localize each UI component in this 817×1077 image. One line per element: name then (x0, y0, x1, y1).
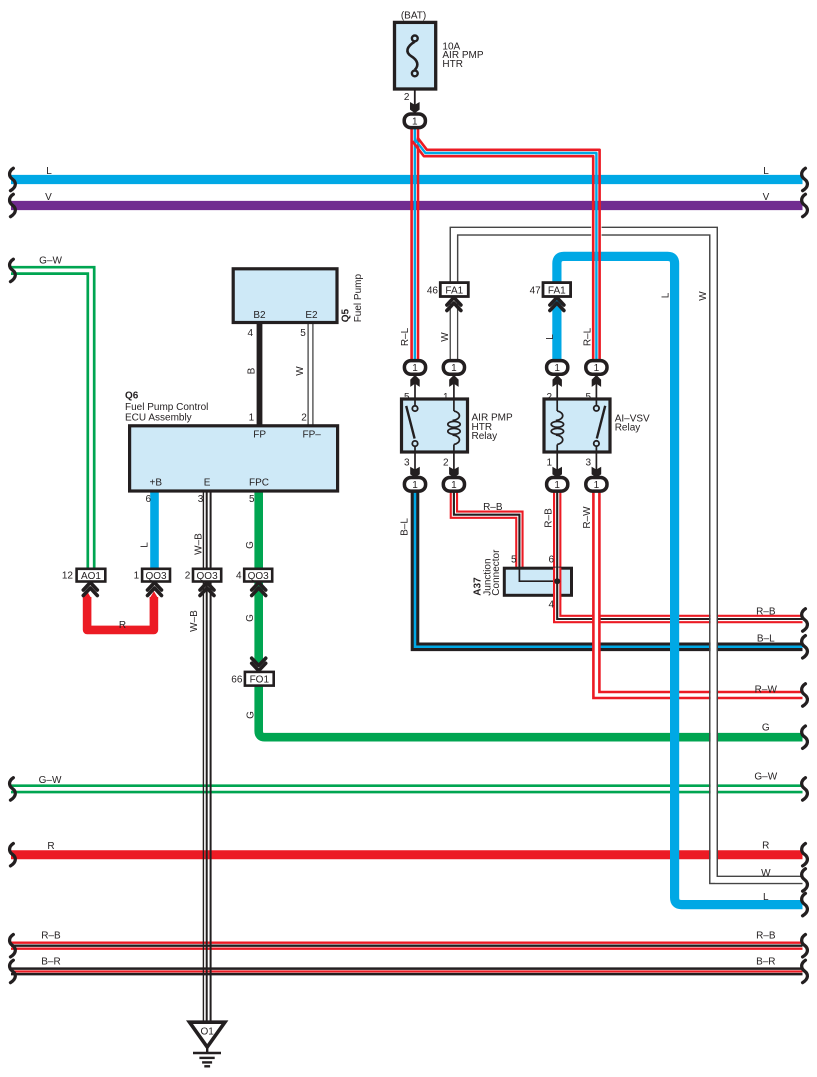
wire B-L from relay pin 3 to right edge (415, 491, 803, 647)
connector 12 AO1 (77, 569, 106, 582)
svg-text:+B: +B (150, 477, 163, 488)
connector 46 FA1 (440, 283, 468, 297)
svg-text:W: W (440, 332, 451, 342)
svg-text:G: G (245, 541, 256, 549)
svg-text:R–B: R–B (756, 607, 776, 618)
svg-text:R–B: R–B (483, 502, 503, 513)
svg-text:G–W: G–W (39, 775, 62, 786)
chevron FA1 47 (550, 298, 564, 311)
connector 4 QO3 (244, 569, 272, 582)
wire R-B from relay1 pin 2 to junction A37 pin 5 (454, 491, 520, 570)
svg-text:5: 5 (511, 555, 517, 566)
edge connector symbols left (10, 168, 16, 982)
svg-text:66: 66 (231, 674, 243, 685)
svg-text:FPC: FPC (249, 477, 269, 488)
wire R-B bus bottom (11, 942, 803, 950)
wire L bus horizontal top (11, 175, 803, 184)
svg-text:V: V (763, 192, 770, 203)
svg-text:4: 4 (247, 328, 253, 339)
relay U3 AI-VSV Relay box (544, 399, 610, 452)
svg-text:2: 2 (185, 571, 191, 582)
svg-text:4: 4 (548, 600, 554, 611)
svg-text:Q6: Q6 (125, 390, 139, 401)
relay1 pin stub wires (415, 372, 454, 480)
svg-text:2: 2 (404, 92, 410, 103)
wire W from Q5 E2 to Q6 FP- (308, 322, 313, 426)
arrow down at fuse output (410, 102, 420, 113)
svg-text:3: 3 (198, 494, 204, 505)
svg-text:W–B: W–B (193, 533, 204, 555)
svg-text:FP: FP (253, 430, 266, 441)
svg-text:R–W: R–W (582, 506, 593, 529)
svg-text:L: L (140, 542, 151, 548)
svg-text:FA1: FA1 (548, 286, 566, 297)
svg-text:Relay: Relay (615, 423, 641, 434)
svg-text:1: 1 (451, 363, 457, 374)
svg-text:1: 1 (546, 457, 552, 468)
arrow from relay1 pin 3 (410, 467, 420, 478)
wire G-W bus horizontal lower (11, 786, 803, 792)
svg-text:QO3: QO3 (248, 571, 270, 582)
connector 47 FA1 (543, 283, 571, 297)
svg-text:G–W: G–W (39, 256, 62, 267)
svg-text:B–L: B–L (757, 634, 775, 645)
svg-text:Q5: Q5 (341, 309, 352, 323)
svg-text:L: L (545, 334, 556, 340)
svg-text:QO3: QO3 (197, 571, 219, 582)
svg-text:R–B: R–B (544, 508, 555, 528)
svg-text:1: 1 (412, 480, 418, 491)
svg-text:L: L (46, 166, 52, 177)
arrow into relay2 pin 2 node (553, 375, 562, 387)
svg-text:V: V (45, 192, 52, 203)
svg-text:W: W (295, 366, 306, 376)
arrow into relay2 pin 5 node (592, 375, 601, 387)
svg-text:FP–: FP– (303, 430, 322, 441)
svg-text:B–L: B–L (400, 518, 411, 536)
relay U2 AIR PMP HTR Relay box (402, 399, 468, 452)
svg-text:B2: B2 (253, 310, 266, 321)
svg-text:O1: O1 (201, 1027, 215, 1038)
svg-text:1: 1 (594, 363, 600, 374)
arrow into relay1 pin 5 node (410, 375, 419, 387)
wire R-L from fuse to relay1 pin5 and branch to relay2 pin5 (412, 124, 602, 368)
svg-text:1: 1 (249, 412, 255, 423)
svg-text:G: G (762, 723, 770, 734)
svg-text:L: L (763, 892, 769, 903)
node 1 oval below fuse (404, 114, 425, 128)
svg-text:FO1: FO1 (250, 675, 270, 686)
svg-text:W: W (698, 291, 709, 301)
svg-text:4: 4 (236, 571, 242, 582)
fuse 10A AIR PMP HTR (BAT) box (395, 22, 436, 89)
svg-text:QO3: QO3 (145, 571, 167, 582)
wire L thick loop from connector FA1 47 around right side to right edge (557, 256, 803, 904)
connector 66 FO1 (245, 672, 274, 686)
chevron QO3 4 (252, 583, 266, 596)
svg-text:B–R: B–R (41, 957, 60, 968)
connector 2 QO3 (193, 569, 221, 582)
svg-text:R–W: R–W (755, 685, 778, 696)
wire B-R bus bottom (11, 967, 803, 975)
svg-text:L: L (763, 166, 769, 177)
svg-text:E: E (204, 477, 211, 488)
relay2 pin stub wires (557, 372, 596, 480)
connector 1 QO3 (142, 569, 170, 582)
svg-text:1: 1 (554, 480, 560, 491)
arrow from relay2 pin 3 (592, 467, 602, 478)
arrow into relay1 pin 1 node (449, 375, 458, 387)
svg-text:R: R (119, 620, 126, 631)
svg-text:5: 5 (249, 494, 255, 505)
svg-text:R: R (762, 841, 769, 852)
svg-text:Fuel Pump: Fuel Pump (353, 274, 364, 323)
chevron FO1 pointing down (252, 658, 266, 671)
svg-text:R–B: R–B (756, 931, 776, 942)
junction connector A37 (504, 568, 571, 601)
svg-text:B: B (246, 367, 257, 374)
svg-text:46: 46 (427, 285, 439, 296)
fuse 10A AIR PMP HTR wire to connector oval (414, 73, 416, 118)
svg-text:R–B: R–B (41, 931, 61, 942)
wire L from connector FA1 47 down to relay2 pin2 oval (552, 300, 561, 366)
svg-text:12: 12 (62, 571, 74, 582)
wire W loop from connector FA1 46 around right side to right edge (450, 227, 802, 883)
svg-text:1: 1 (412, 116, 418, 127)
node ovals below relays (404, 478, 607, 492)
svg-text:Relay: Relay (472, 431, 498, 442)
svg-text:6: 6 (145, 494, 151, 505)
wire L from Q6 +B to connector QO3 1 (150, 491, 159, 569)
svg-text:Connector: Connector (491, 549, 502, 596)
wire W-B from Q6 E down to ground O1 (203, 491, 210, 1023)
svg-text:HTR: HTR (442, 59, 463, 70)
svg-text:G–W: G–W (754, 772, 777, 783)
svg-text:1: 1 (554, 363, 560, 374)
svg-text:E2: E2 (305, 310, 318, 321)
svg-text:W–B: W–B (189, 610, 200, 632)
chevron QO3 2 (200, 583, 214, 596)
svg-text:3: 3 (585, 457, 591, 468)
svg-text:W: W (761, 868, 771, 879)
svg-text:1: 1 (134, 571, 140, 582)
svg-text:FA1: FA1 (445, 286, 463, 297)
svg-text:R–L: R–L (400, 327, 411, 346)
svg-text:Fuel Pump Control: Fuel Pump Control (125, 402, 208, 413)
wire G-W from left edge to connector AO1 (11, 267, 94, 569)
wire W from connector FA1 46 down to relay1 pin1 oval (450, 304, 457, 367)
ground O1 (190, 1022, 225, 1066)
Q6 Fuel Pump Control ECU Assembly box (130, 426, 338, 491)
svg-text:(BAT): (BAT) (401, 11, 426, 22)
wire R-W from relay2 pin 3 to right edge (596, 491, 802, 695)
chevron FA1 46 (447, 298, 461, 311)
Q5 Fuel Pump box (233, 269, 337, 323)
arrow from relay2 pin 1 (552, 467, 562, 478)
svg-text:2: 2 (301, 412, 307, 423)
wire R-B from relay2 pin 1 through junction A37 pin 6 / pin 4 to right edge (557, 491, 802, 619)
edge connector symbols right (802, 168, 808, 982)
chevron AO1 (83, 583, 97, 596)
chevron QO3 1 (148, 583, 162, 596)
svg-text:1: 1 (451, 480, 457, 491)
wire B from Q5 B2 to Q6 FP (257, 322, 263, 426)
wire R bus horizontal lower (11, 850, 803, 859)
svg-text:R–L: R–L (583, 327, 594, 346)
svg-text:1: 1 (412, 363, 418, 374)
arrow from relay1 pin 2 (449, 467, 459, 478)
svg-text:B–R: B–R (756, 957, 775, 968)
svg-text:3: 3 (404, 457, 410, 468)
svg-text:47: 47 (530, 285, 542, 296)
svg-text:1: 1 (594, 480, 600, 491)
svg-text:5: 5 (300, 328, 306, 339)
node ovals above relays (404, 361, 607, 375)
svg-text:AO1: AO1 (81, 571, 101, 582)
svg-text:ECU Assembly: ECU Assembly (125, 412, 192, 423)
wire V bus horizontal top (11, 201, 803, 210)
svg-text:6: 6 (548, 555, 554, 566)
svg-text:R: R (47, 841, 54, 852)
svg-text:G: G (245, 614, 256, 622)
wire R U-shape between AO1 and QO3 (83, 591, 158, 630)
svg-text:L: L (661, 292, 672, 298)
svg-text:2: 2 (443, 457, 449, 468)
wire G from Q6 FPC through QO3 and FO1 to right edge (254, 491, 802, 737)
svg-text:G: G (246, 711, 257, 719)
